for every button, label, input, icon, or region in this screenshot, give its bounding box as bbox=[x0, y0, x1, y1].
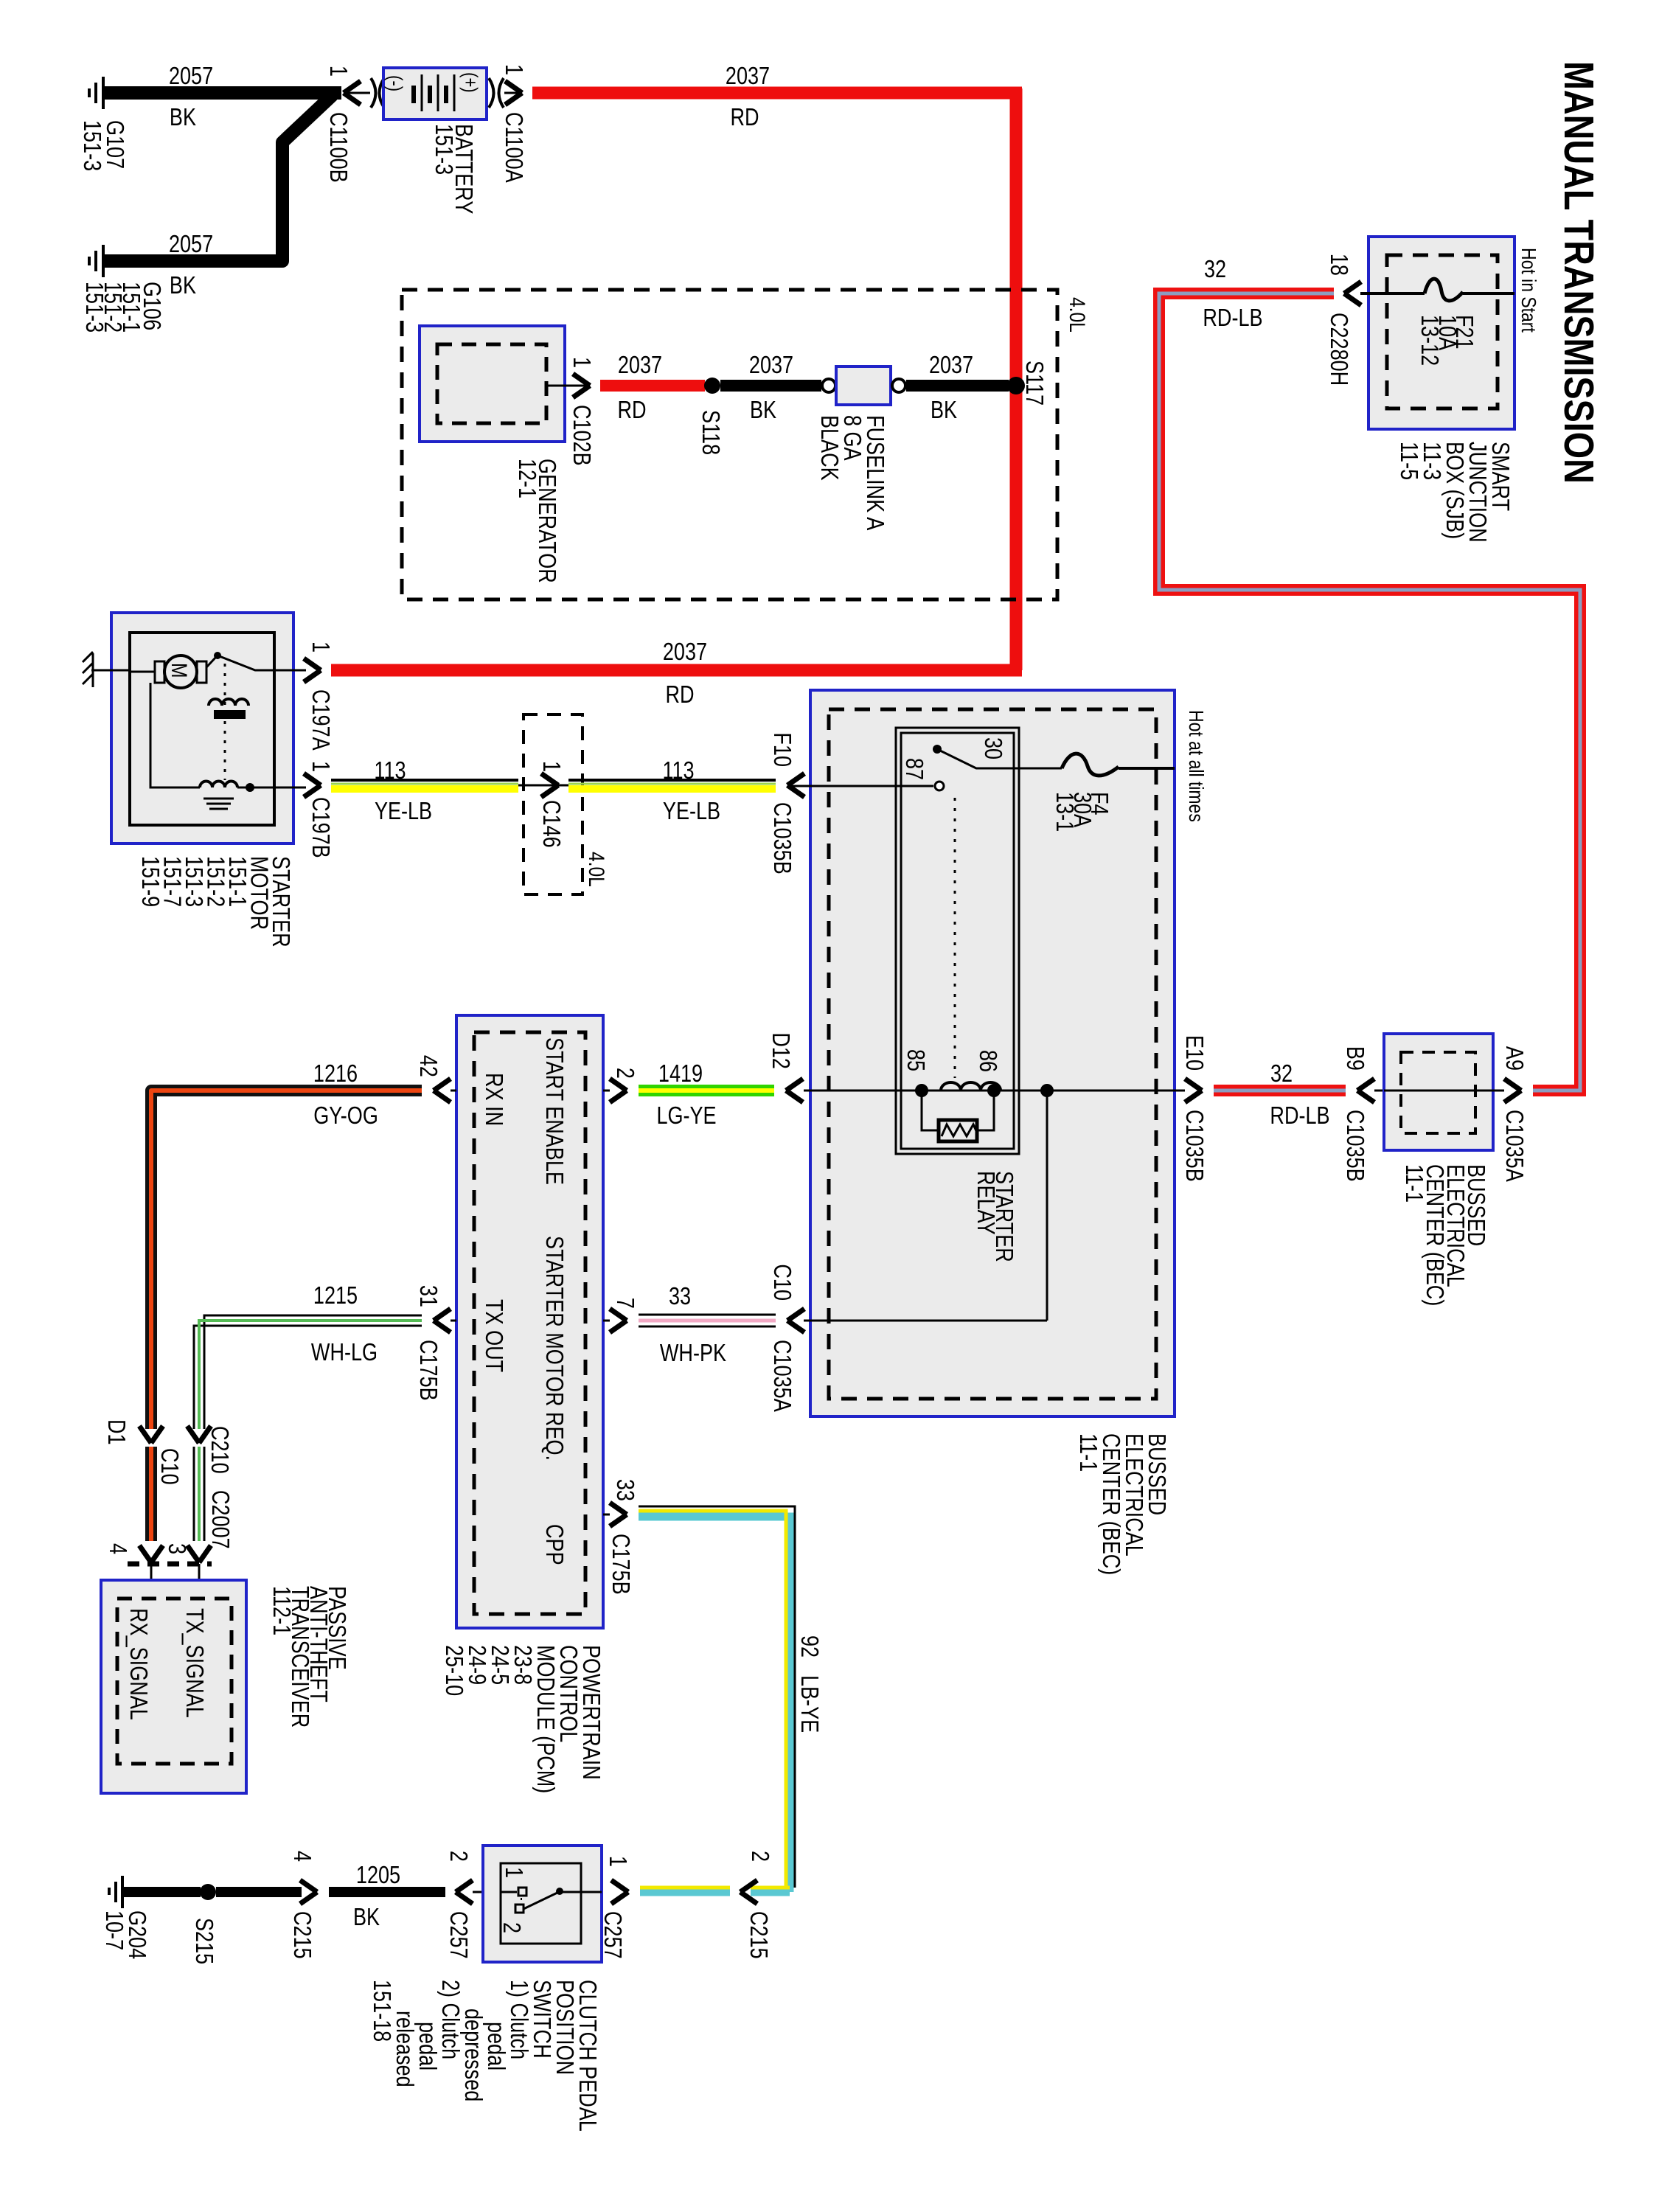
svg-text:151-3: 151-3 bbox=[80, 282, 107, 333]
svg-text:113: 113 bbox=[662, 758, 694, 785]
wire 2037 RD from battery C1100A bbox=[532, 63, 1022, 131]
wire 113 YE-LB C146 to BEC F10 bbox=[568, 758, 776, 825]
svg-text:C1035A: C1035A bbox=[768, 1340, 795, 1413]
relay pin 87 contact bbox=[935, 782, 944, 790]
switch connector C257 pin 1 bbox=[599, 1856, 630, 1959]
svg-text:C1035B: C1035B bbox=[1180, 1110, 1207, 1182]
svg-text:WH-LG: WH-LG bbox=[311, 1340, 378, 1366]
passive anti-theft transceiver PATS bbox=[101, 1564, 349, 1793]
svg-text:10-7: 10-7 bbox=[100, 1910, 127, 1950]
svg-text:112-1: 112-1 bbox=[268, 1586, 294, 1635]
generator (GENERATOR 12-1) bbox=[420, 326, 565, 583]
fuselink A 8GA BLACK bbox=[815, 366, 905, 531]
svg-text:STARTER MOTOR REQ.: STARTER MOTOR REQ. bbox=[540, 1236, 567, 1461]
connector C2280H pin 18 bbox=[1325, 254, 1361, 386]
svg-text:BK: BK bbox=[170, 105, 196, 131]
svg-text:BK: BK bbox=[931, 397, 957, 424]
connector C197B pin 1 bbox=[304, 761, 333, 858]
chassis ground at starter motor bbox=[83, 652, 130, 687]
starter motor (STARTER MOTOR 151-x) bbox=[83, 613, 306, 947]
svg-text:2057: 2057 bbox=[169, 232, 213, 258]
starter relay box bbox=[896, 728, 1019, 1154]
solenoid hold-in winding bbox=[200, 782, 237, 788]
svg-text:7: 7 bbox=[611, 1298, 638, 1309]
svg-text:TX OUT: TX OUT bbox=[480, 1299, 507, 1372]
internal BEC wire pin 86 to C10 bbox=[804, 1091, 1047, 1321]
BEC pin A9 connector C1035A bbox=[1493, 1046, 1527, 1183]
svg-text:3: 3 bbox=[163, 1543, 189, 1554]
svg-text:18: 18 bbox=[1325, 254, 1352, 276]
svg-text:1215: 1215 bbox=[313, 1283, 358, 1310]
svg-text:C2280H: C2280H bbox=[1325, 313, 1352, 386]
svg-text:151-18: 151-18 bbox=[368, 1980, 394, 2042]
svg-text:2037: 2037 bbox=[929, 352, 973, 379]
relay coil pins 85 86 bbox=[804, 1090, 1175, 1092]
svg-text:RD: RD bbox=[617, 397, 646, 424]
svg-text:S117: S117 bbox=[1020, 361, 1047, 406]
svg-text:MANUAL TRANSMISSION: MANUAL TRANSMISSION bbox=[1555, 61, 1601, 484]
clutch pedal position switch bbox=[368, 1846, 602, 2132]
svg-text:C1100B: C1100B bbox=[324, 112, 351, 183]
svg-text:2037: 2037 bbox=[749, 352, 793, 379]
solenoid contacts and plunger bbox=[206, 657, 216, 667]
svg-text:CPP: CPP bbox=[540, 1524, 567, 1565]
svg-text:C215: C215 bbox=[288, 1911, 315, 1959]
powertrain control module PCM bbox=[440, 1015, 604, 1793]
svg-text:4.0L: 4.0L bbox=[1065, 297, 1090, 333]
solenoid pull-in winding bbox=[209, 699, 248, 706]
connector C1100A pin 1 bbox=[500, 64, 526, 184]
svg-text:1: 1 bbox=[568, 357, 594, 368]
svg-text:2: 2 bbox=[498, 1922, 524, 1933]
svg-text:C175B: C175B bbox=[414, 1340, 441, 1401]
svg-text:TX_SIGNAL: TX_SIGNAL bbox=[181, 1608, 207, 1718]
svg-text:86: 86 bbox=[974, 1050, 1001, 1072]
smart junction box SJB with fuse F21 10A bbox=[1360, 237, 1540, 543]
wire BK S215 to C215 bbox=[216, 1887, 302, 1897]
wire 2037 RD generator to S118 bbox=[600, 352, 705, 424]
svg-text:1: 1 bbox=[604, 1856, 630, 1867]
svg-text:33: 33 bbox=[611, 1479, 638, 1501]
svg-text:C102B: C102B bbox=[568, 405, 594, 466]
in-line connector C215 pin 4 bbox=[288, 1851, 317, 1959]
in-line connector C210 / C2007 on wire 1215 bbox=[187, 1426, 233, 1549]
svg-text:RD-LB: RD-LB bbox=[1203, 305, 1262, 332]
svg-text:113: 113 bbox=[374, 758, 406, 785]
svg-text:1: 1 bbox=[324, 66, 351, 77]
connector C1100B pin 1 bbox=[324, 66, 370, 183]
svg-text:151-3: 151-3 bbox=[430, 124, 456, 175]
svg-text:RD: RD bbox=[665, 682, 694, 709]
svg-text:F10: F10 bbox=[768, 732, 795, 767]
wire 1215 WH-LG PCM 31 to PATS TX bbox=[194, 1283, 422, 1429]
in-line connector D1 / C10 on wire 1216 bbox=[102, 1419, 182, 1485]
svg-text:E10: E10 bbox=[1180, 1035, 1207, 1071]
wire 32 RD-LB: SJB C2280H to BEC C1035A A9 bbox=[1159, 257, 1580, 1091]
wire 2037 BK S118 to fuselink A bbox=[720, 352, 821, 424]
svg-text:12-1: 12-1 bbox=[513, 459, 540, 498]
bussed electrical center BEC with starter relay and fuse F4 30A bbox=[787, 690, 1207, 1575]
BEC pin B9 connector C1035B bbox=[1341, 1046, 1384, 1182]
svg-text:42: 42 bbox=[414, 1055, 441, 1077]
fuse F4 30A bbox=[1062, 754, 1119, 776]
in-line connector C146 pin 1 (4.0L) bbox=[524, 714, 609, 894]
svg-text:1: 1 bbox=[538, 761, 564, 772]
wire 1419 LG-YE PCM 2 to BEC D12 bbox=[639, 1061, 774, 1130]
wire 2037 RD starter motor feed bbox=[331, 639, 1022, 709]
wire BK G204 to S215 bbox=[122, 1887, 201, 1897]
PCM pin 7 STARTER MOTOR REQ bbox=[603, 1298, 638, 1332]
svg-text:C215: C215 bbox=[745, 1911, 771, 1959]
svg-text:C1035B: C1035B bbox=[1341, 1110, 1368, 1182]
svg-text:B9: B9 bbox=[1341, 1046, 1368, 1071]
svg-text:C10: C10 bbox=[768, 1264, 795, 1301]
svg-text:4: 4 bbox=[288, 1851, 315, 1862]
svg-text:2037: 2037 bbox=[618, 352, 662, 379]
svg-text:C2007: C2007 bbox=[206, 1490, 233, 1549]
svg-text:32: 32 bbox=[1204, 257, 1226, 283]
wire 1216 GY-OG lower segment bbox=[139, 1447, 163, 1562]
wire 33 WH-PK PCM 7 to BEC C10 bbox=[639, 1284, 776, 1367]
svg-text:1419: 1419 bbox=[658, 1061, 703, 1088]
bussed electrical center BEC feed-through box bbox=[1384, 1034, 1493, 1306]
svg-text:1: 1 bbox=[307, 641, 333, 653]
svg-text:C257: C257 bbox=[599, 1911, 625, 1959]
svg-text:S215: S215 bbox=[190, 1918, 217, 1964]
svg-text:C197B: C197B bbox=[307, 797, 333, 858]
PCM pin 42 RX IN bbox=[414, 1055, 456, 1102]
svg-text:25-10: 25-10 bbox=[440, 1645, 467, 1696]
svg-text:(-): (-) bbox=[383, 75, 406, 91]
BEC pin E10 connector C1035B bbox=[1175, 1035, 1207, 1182]
svg-text:S118: S118 bbox=[697, 410, 723, 455]
svg-text:11-5: 11-5 bbox=[1395, 442, 1422, 480]
svg-text:C257: C257 bbox=[445, 1911, 471, 1959]
engine compartment 4.0L dashed boundary bbox=[402, 290, 1057, 599]
svg-text:M: M bbox=[167, 663, 192, 678]
wire 1216 GY-OG PCM 42 to PATS RX bbox=[151, 1061, 422, 1429]
svg-text:151-9: 151-9 bbox=[136, 856, 163, 907]
svg-text:11-1: 11-1 bbox=[1074, 1433, 1101, 1472]
svg-text:33: 33 bbox=[669, 1284, 691, 1310]
svg-text:Hot at all times: Hot at all times bbox=[1184, 710, 1207, 822]
wire 2057 BK from G107 to C1100B bbox=[103, 63, 341, 131]
svg-text:LG-YE: LG-YE bbox=[656, 1103, 716, 1130]
svg-text:2: 2 bbox=[611, 1068, 638, 1079]
svg-text:BLACK: BLACK bbox=[815, 415, 842, 481]
svg-text:RD: RD bbox=[730, 105, 759, 131]
svg-text:C210: C210 bbox=[206, 1426, 232, 1474]
svg-text:32: 32 bbox=[1270, 1061, 1293, 1088]
svg-text:RX_SIGNAL: RX_SIGNAL bbox=[125, 1608, 151, 1720]
wire 1215 WH-LG lower segment bbox=[187, 1447, 211, 1562]
svg-text:Hot in Start: Hot in Start bbox=[1517, 248, 1540, 333]
svg-text:1: 1 bbox=[307, 761, 333, 772]
ground G106 bbox=[80, 245, 164, 333]
svg-text:87: 87 bbox=[900, 758, 927, 780]
relay pin 30 and switch bbox=[933, 745, 942, 754]
wire 113 YE-LB starter to C146 bbox=[331, 758, 568, 825]
svg-text:D1: D1 bbox=[102, 1419, 129, 1445]
relay plunger dotted link bbox=[954, 798, 956, 1078]
svg-text:LB-YE: LB-YE bbox=[796, 1675, 822, 1733]
svg-text:1216: 1216 bbox=[313, 1061, 358, 1088]
svg-text:85: 85 bbox=[902, 1049, 928, 1071]
svg-text:4: 4 bbox=[104, 1543, 131, 1554]
PCM pin 2 START ENABLE bbox=[603, 1068, 638, 1102]
PCM pin 31 TX OUT connector C175B bbox=[414, 1285, 456, 1401]
wire 92 LB-YE PCM 33 CPP to clutch switch bbox=[639, 1506, 822, 1892]
svg-text:C146: C146 bbox=[538, 800, 564, 848]
svg-text:92: 92 bbox=[796, 1635, 822, 1658]
svg-text:2037: 2037 bbox=[726, 63, 770, 90]
svg-text:C175B: C175B bbox=[607, 1534, 633, 1595]
svg-text:1: 1 bbox=[500, 1867, 526, 1878]
svg-text:RD-LB: RD-LB bbox=[1270, 1103, 1329, 1130]
wire 2057 BK from G106 joining battery negative bbox=[103, 95, 333, 299]
svg-text:C1035B: C1035B bbox=[768, 802, 795, 874]
svg-text:2: 2 bbox=[746, 1851, 773, 1862]
svg-text:BK: BK bbox=[170, 273, 196, 299]
svg-text:4.0L: 4.0L bbox=[584, 852, 609, 887]
svg-text:2037: 2037 bbox=[663, 639, 707, 666]
svg-text:YE-LB: YE-LB bbox=[375, 799, 432, 825]
svg-text:BK: BK bbox=[750, 397, 776, 424]
svg-text:RX IN: RX IN bbox=[480, 1073, 507, 1126]
connector C102B pin 1 bbox=[546, 357, 594, 466]
svg-text:1205: 1205 bbox=[356, 1863, 400, 1889]
connector C197A pin 1 bbox=[304, 641, 333, 751]
svg-text:GY-OG: GY-OG bbox=[313, 1103, 378, 1130]
svg-text:13-1: 13-1 bbox=[1051, 792, 1077, 832]
ground G204 bbox=[100, 1876, 150, 1959]
BEC pin D12 connector C1035B bbox=[767, 1032, 803, 1102]
svg-text:RELAY: RELAY bbox=[972, 1171, 998, 1235]
svg-text:C1035A: C1035A bbox=[1500, 1110, 1527, 1183]
wire 2037 RD vertical trunk through S117 bbox=[1010, 88, 1023, 670]
wire 32 RD-LB E10 to B9 bbox=[1214, 1061, 1346, 1130]
svg-text:2: 2 bbox=[445, 1851, 471, 1862]
BEC pin C10 connector C1035A bbox=[768, 1264, 804, 1412]
svg-text:2057: 2057 bbox=[169, 63, 213, 90]
motor M armature bbox=[164, 655, 197, 688]
svg-text:YE-LB: YE-LB bbox=[663, 799, 720, 825]
battery B (BATTERY 151-3) bbox=[371, 68, 504, 214]
splice S118 bbox=[697, 378, 723, 455]
svg-text:30: 30 bbox=[979, 737, 1006, 759]
svg-text:A9: A9 bbox=[1500, 1046, 1527, 1071]
svg-text:1: 1 bbox=[500, 64, 526, 75]
svg-text:13-12: 13-12 bbox=[1416, 315, 1442, 366]
svg-text:C1100A: C1100A bbox=[500, 112, 526, 184]
wire 92 LB-YE switch segment handled above; in-line connector C215 pin 2 bbox=[740, 1851, 773, 1959]
svg-text:31: 31 bbox=[414, 1285, 441, 1307]
svg-text:WH-PK: WH-PK bbox=[660, 1340, 726, 1367]
svg-text:151-3: 151-3 bbox=[78, 120, 105, 171]
svg-text:(+): (+) bbox=[459, 72, 481, 93]
PATS connector dashed line pins 4 and 3 bbox=[128, 1562, 212, 1567]
wire 1205 BK bbox=[329, 1863, 445, 1931]
PCM pin 33 CPP connector C175B bbox=[603, 1479, 638, 1595]
relay coil suppression resistor bbox=[922, 1091, 994, 1130]
svg-text:D12: D12 bbox=[767, 1032, 793, 1069]
svg-text:BK: BK bbox=[353, 1905, 380, 1931]
splice S117 on 2037 RD trunk bbox=[1007, 361, 1047, 406]
ground G107 bbox=[78, 77, 128, 171]
svg-text:C10: C10 bbox=[156, 1448, 182, 1485]
in-line connector C257 pin 2 bbox=[445, 1851, 483, 1959]
svg-text:11-1: 11-1 bbox=[1400, 1164, 1427, 1203]
svg-text:START ENABLE: START ENABLE bbox=[540, 1037, 567, 1185]
wire 2037 BK fuselink to S117 bbox=[906, 352, 1009, 424]
svg-text:C197A: C197A bbox=[307, 689, 333, 751]
BEC pin F10 connector C1035B bbox=[768, 732, 804, 874]
splice S215 bbox=[190, 1884, 217, 1964]
starter motor internal wiring bbox=[150, 683, 200, 787]
